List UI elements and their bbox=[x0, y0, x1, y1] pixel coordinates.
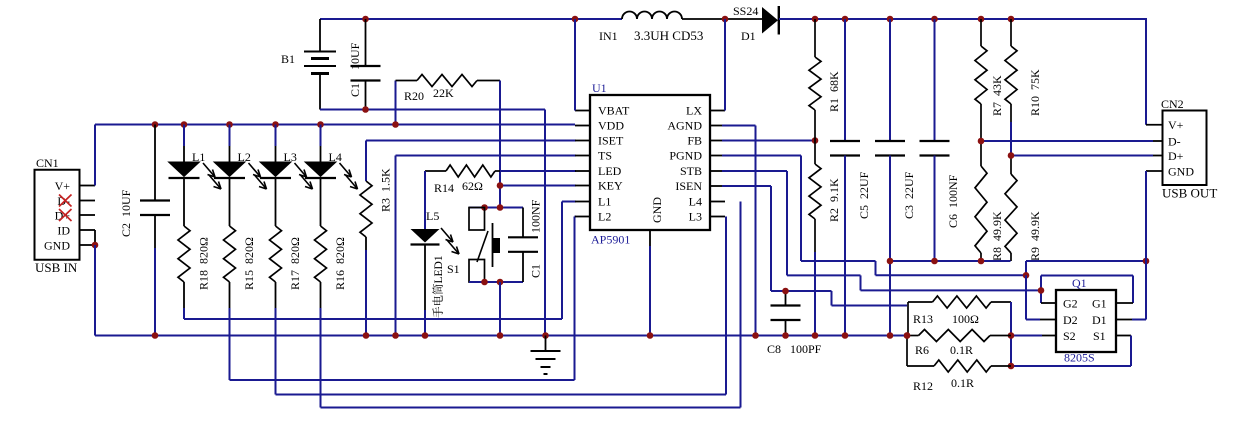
wire R20 right lead down to key node bbox=[499, 81, 501, 208]
svg-text:V+: V+ bbox=[1168, 118, 1184, 132]
svg-text:ISEN: ISEN bbox=[675, 179, 702, 193]
CN2 pin V+ bbox=[1146, 118, 1184, 132]
wire S1 return bbox=[1011, 336, 1131, 367]
svg-text:GND: GND bbox=[44, 239, 70, 253]
svg-text:L1: L1 bbox=[598, 195, 611, 209]
svg-text:L2: L2 bbox=[598, 210, 611, 224]
resistor R8 49.9K bbox=[975, 141, 1004, 261]
U1 GND pin label bbox=[650, 197, 664, 223]
svg-text:D+: D+ bbox=[55, 209, 71, 223]
wire net line A bbox=[890, 260, 1011, 262]
wire battery negative rail bbox=[320, 110, 545, 336]
resistor R16 820Ω bbox=[315, 226, 348, 290]
wire L5 cathode to ground bbox=[424, 245, 426, 336]
svg-text:G2: G2 bbox=[1063, 297, 1078, 311]
svg-text:C8: C8 bbox=[767, 342, 781, 356]
resistor R2 9.1K bbox=[809, 141, 841, 336]
wire S2 line bbox=[1011, 335, 1056, 337]
svg-text:R10 75K: R10 75K bbox=[1028, 69, 1042, 116]
svg-text:STB: STB bbox=[680, 164, 702, 178]
wire FB to feedback node bbox=[722, 140, 815, 142]
svg-text:AGND: AGND bbox=[667, 119, 702, 133]
connector CN2 box bbox=[1161, 97, 1217, 201]
wire R15 bottom lead bbox=[229, 282, 231, 308]
wire D+ line bbox=[1011, 155, 1163, 157]
wire VDD rail bbox=[95, 124, 575, 126]
wire LED L1 anode bbox=[183, 125, 185, 163]
wire Q1 gate bracket bbox=[1041, 276, 1133, 304]
svg-text:R12: R12 bbox=[913, 379, 933, 393]
svg-text:S1: S1 bbox=[447, 262, 460, 276]
switch S1 pushbutton bbox=[447, 208, 500, 283]
wire ground rail bbox=[95, 335, 907, 337]
capacitor C3 22UF bbox=[875, 19, 916, 336]
capacitor C1 100NF bbox=[508, 199, 543, 282]
inductor IN1 3.3UH CD53 bbox=[599, 12, 703, 43]
svg-text:C3 22UF: C3 22UF bbox=[902, 171, 916, 219]
svg-text:VDD: VDD bbox=[598, 119, 624, 133]
svg-text:ID: ID bbox=[57, 224, 70, 238]
CN1 pin V+ bbox=[55, 179, 95, 193]
svg-text:D1: D1 bbox=[1092, 313, 1107, 327]
capacitor C2 10UF bbox=[119, 125, 170, 336]
svg-text:L3: L3 bbox=[689, 210, 702, 224]
svg-text:R16 820Ω: R16 820Ω bbox=[333, 237, 347, 290]
wire R18 to U1 pin L1 bbox=[184, 202, 576, 320]
svg-text:B1: B1 bbox=[281, 52, 295, 66]
svg-text:R7 43K: R7 43K bbox=[990, 75, 1004, 116]
wire CN1 V+ up to VDD rail bbox=[94, 125, 96, 186]
wire R15 to U1 pin L2 bbox=[230, 217, 577, 381]
wire top rail from battery to inductor bbox=[320, 18, 622, 20]
svg-text:C6 100NF: C6 100NF bbox=[946, 174, 960, 228]
wire R17 to U1 pin L3 bbox=[276, 217, 727, 395]
resistor R18 820Ω bbox=[178, 226, 211, 290]
svg-text:USB OUT: USB OUT bbox=[1162, 186, 1217, 201]
wire net line A2 to CN2 GND bbox=[1026, 261, 1146, 275]
svg-text:Q1: Q1 bbox=[1072, 276, 1087, 290]
svg-text:L2: L2 bbox=[238, 150, 251, 164]
op-amp U1 AP5901 box bbox=[590, 81, 710, 247]
wire STB run to Q1 gates bbox=[722, 171, 1041, 290]
junction D- node bbox=[978, 138, 985, 145]
svg-text:3.3UH CD53: 3.3UH CD53 bbox=[634, 28, 703, 43]
capacitor C1 10UF bbox=[348, 19, 381, 110]
ground symbol bbox=[531, 336, 561, 375]
red X over D- bbox=[59, 195, 72, 207]
junction S1 top a bbox=[481, 204, 488, 211]
svg-text:IN1: IN1 bbox=[599, 29, 618, 43]
svg-text:22K: 22K bbox=[433, 86, 454, 100]
junction CN2 GND / D1 bbox=[1143, 258, 1150, 265]
resistor R20 22K bbox=[396, 75, 501, 125]
wire TS line bbox=[396, 156, 577, 336]
svg-text:PGND: PGND bbox=[669, 149, 702, 163]
junction S2 bus bbox=[1008, 332, 1015, 339]
junction S1 bottom b bbox=[497, 279, 504, 286]
svg-text:GND: GND bbox=[650, 197, 664, 223]
wire CN1 GND down to ground rail bbox=[94, 245, 96, 336]
resistor R9 49.9K bbox=[1005, 156, 1042, 262]
junction C8 top bbox=[782, 288, 789, 295]
wire D2 branch down bbox=[1026, 275, 1040, 319]
red X over D+ bbox=[59, 209, 72, 221]
wire S1 bottom to ground rail bbox=[499, 282, 501, 336]
svg-text:R9 49.9K: R9 49.9K bbox=[1028, 211, 1042, 261]
svg-text:S2: S2 bbox=[1063, 329, 1076, 343]
resistor R7 43K bbox=[975, 19, 1004, 141]
CN1 pin ID bbox=[57, 224, 95, 238]
svg-text:LX: LX bbox=[686, 104, 702, 118]
svg-text:C1: C1 bbox=[529, 264, 543, 278]
transistor Q1 8205S box bbox=[1056, 276, 1116, 365]
svg-text:R13: R13 bbox=[913, 312, 933, 326]
wire LED L4 anode bbox=[320, 125, 322, 163]
resistor R10 75K bbox=[1005, 19, 1042, 156]
wire LED L2 anode bbox=[229, 125, 231, 163]
battery B1 bbox=[281, 19, 336, 110]
svg-text:D-: D- bbox=[1168, 135, 1181, 149]
svg-text:R15 820Ω: R15 820Ω bbox=[242, 237, 256, 290]
LED L2 bbox=[214, 150, 267, 189]
wire U1 GND pin to ground rail bbox=[649, 230, 651, 336]
svg-text:G1: G1 bbox=[1092, 297, 1107, 311]
wire switch top node bbox=[469, 207, 523, 209]
Q1 pin D2 stub bbox=[1040, 319, 1056, 321]
svg-text:100PF: 100PF bbox=[790, 342, 822, 356]
diode D1 SS24 bbox=[733, 4, 779, 43]
svg-text:C2 10UF: C2 10UF bbox=[119, 189, 133, 237]
junction dots on top rail bbox=[362, 16, 1014, 23]
svg-text:SS24: SS24 bbox=[733, 4, 758, 18]
wire inductor to diode bbox=[682, 18, 762, 20]
svg-text:TS: TS bbox=[598, 149, 612, 163]
LED L5 flashlight bbox=[411, 209, 460, 318]
resistor R15 820Ω bbox=[224, 226, 257, 290]
junction S1 bus bbox=[1008, 363, 1015, 370]
svg-text:100Ω: 100Ω bbox=[952, 312, 979, 326]
wire diode to output rail corner bbox=[779, 18, 1146, 125]
junction line A C3 bbox=[887, 258, 894, 265]
wire R17 bottom lead bbox=[275, 282, 277, 308]
svg-text:8205S: 8205S bbox=[1064, 351, 1095, 365]
svg-text:LED1: LED1 bbox=[433, 255, 445, 283]
svg-text:D1: D1 bbox=[741, 29, 756, 43]
svg-text:L5: L5 bbox=[426, 209, 439, 223]
resistor R1 68K bbox=[809, 19, 841, 141]
junction KEY node bbox=[497, 182, 504, 189]
LED L3 bbox=[260, 150, 313, 189]
wire R16 to U1 pin L4 bbox=[321, 202, 741, 408]
wire LX up to top rail bbox=[724, 19, 726, 111]
svg-text:100NF: 100NF bbox=[529, 199, 543, 233]
svg-text:GND: GND bbox=[1168, 165, 1194, 179]
Q1 pin labels bbox=[1063, 297, 1107, 344]
svg-text:D+: D+ bbox=[1168, 149, 1184, 163]
resistor R17 820Ω bbox=[270, 226, 303, 290]
svg-text:KEY: KEY bbox=[598, 179, 623, 193]
junction G2 / STB bbox=[1038, 287, 1045, 294]
svg-text:R3 1.5K: R3 1.5K bbox=[379, 168, 393, 212]
U1 right pin stubs and labels bbox=[667, 104, 725, 224]
wire L4 cathode to R16 bbox=[320, 178, 322, 226]
CN1 pin GND bbox=[44, 239, 95, 253]
svg-text:R6: R6 bbox=[915, 343, 929, 357]
resistor R12 0.1R bbox=[907, 336, 1011, 394]
resistor R6 0.1R bbox=[907, 330, 1011, 358]
svg-text:C1: C1 bbox=[348, 83, 362, 97]
junction FB node bbox=[812, 137, 819, 144]
svg-text:R20: R20 bbox=[404, 89, 424, 103]
wire D- line bbox=[981, 140, 1163, 142]
junction D2 branch bbox=[1023, 272, 1030, 279]
wire VBAT up to top rail bbox=[574, 19, 576, 111]
svg-text:S1: S1 bbox=[1093, 329, 1106, 343]
capacitor C8 100PF bbox=[767, 291, 822, 356]
CN2 pin D+ bbox=[1168, 149, 1184, 163]
svg-text:0.1R: 0.1R bbox=[951, 376, 974, 390]
svg-text:0.1R: 0.1R bbox=[950, 343, 973, 357]
svg-text:LED: LED bbox=[598, 164, 622, 178]
svg-text:L4: L4 bbox=[689, 195, 702, 209]
CN1 pin D- (unused) bbox=[57, 194, 95, 208]
svg-text:62Ω: 62Ω bbox=[462, 179, 483, 193]
svg-text:L1: L1 bbox=[192, 150, 205, 164]
junction CN1 GND bbox=[92, 242, 99, 249]
svg-text:R14: R14 bbox=[434, 181, 454, 195]
wire R18 bottom lead bbox=[183, 282, 185, 308]
wire PGND run bbox=[722, 156, 1026, 276]
resistor R13 100Ω bbox=[908, 296, 1011, 336]
capacitor C6 100NF bbox=[920, 19, 961, 261]
U1 left pin stubs and labels bbox=[575, 104, 630, 224]
wire ISET line bbox=[366, 141, 576, 182]
wire ID to GND jog bbox=[94, 230, 96, 245]
svg-text:V+: V+ bbox=[55, 179, 71, 193]
wire L2 cathode to R15 bbox=[229, 178, 231, 226]
svg-text:R18 820Ω: R18 820Ω bbox=[197, 237, 211, 290]
wire ISEN run bbox=[722, 186, 907, 306]
wire switch bottom node bbox=[469, 281, 523, 283]
CN1 pin D+ (unused) bbox=[55, 209, 95, 223]
CN2 pin GND bbox=[1146, 165, 1194, 179]
junction S1 top b bbox=[497, 204, 504, 211]
wire CN2 GND down to D1 bbox=[1116, 171, 1146, 320]
svg-text:CN1: CN1 bbox=[36, 156, 59, 170]
wire LED pin line bbox=[500, 170, 576, 172]
svg-text:VBAT: VBAT bbox=[598, 104, 630, 118]
svg-text:L3: L3 bbox=[284, 150, 297, 164]
junction battery/C1 bottom bbox=[362, 106, 369, 113]
svg-text:ISET: ISET bbox=[598, 134, 624, 148]
svg-text:10UF: 10UF bbox=[348, 42, 362, 70]
CN2 pin D- bbox=[1168, 135, 1181, 149]
wire AGND to ground rail bbox=[722, 126, 756, 336]
junction dots on ground rail bbox=[152, 332, 911, 339]
svg-text:R8 49.9K: R8 49.9K bbox=[990, 211, 1004, 261]
wire R13/R6/R12 right bus bbox=[1010, 302, 1012, 366]
wire LED L3 anode bbox=[275, 125, 277, 163]
resistor R14 62Ω bbox=[425, 165, 500, 195]
svg-text:U1: U1 bbox=[592, 81, 607, 95]
svg-text:FB: FB bbox=[687, 134, 702, 148]
svg-text:R17 820Ω: R17 820Ω bbox=[288, 237, 302, 290]
svg-text:R1 68K: R1 68K bbox=[827, 71, 841, 112]
svg-text:USB IN: USB IN bbox=[35, 260, 78, 275]
junction line A R8 bbox=[978, 258, 985, 265]
wire R14 left lead down to L5 bbox=[424, 171, 426, 229]
wire R16 bottom lead bbox=[320, 282, 322, 308]
wire KEY pin line bbox=[500, 185, 576, 187]
capacitor C5 22UF bbox=[830, 19, 871, 336]
junction S1 bottom a bbox=[481, 279, 488, 286]
junction line A C6 bbox=[931, 258, 938, 265]
wire L1 cathode to R18 bbox=[183, 178, 185, 226]
svg-text:CN2: CN2 bbox=[1161, 97, 1184, 111]
svg-text:R2 9.1K: R2 9.1K bbox=[827, 178, 841, 222]
svg-text:AP5901: AP5901 bbox=[591, 233, 630, 247]
junction D+ node bbox=[1008, 152, 1015, 159]
wire L3 cathode to R17 bbox=[275, 178, 277, 226]
junction sense left bbox=[904, 332, 911, 339]
LED L4 bbox=[305, 150, 358, 189]
svg-text:C5 22UF: C5 22UF bbox=[857, 171, 871, 219]
svg-text:D2: D2 bbox=[1063, 313, 1078, 327]
LED L1 bbox=[169, 150, 222, 189]
svg-text:L4: L4 bbox=[329, 150, 342, 164]
connector CN1 box bbox=[35, 156, 80, 275]
junction dots on VDD rail bbox=[152, 121, 399, 128]
resistor R3 1.5K bbox=[360, 168, 393, 336]
